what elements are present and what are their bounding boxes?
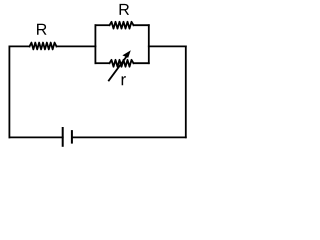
wire top branch left [95, 24, 109, 26]
node A: parallel box left vertical [94, 25, 96, 63]
rheostat arrow head [122, 50, 130, 58]
resistor R2 [110, 22, 134, 29]
wire bottom left [9, 136, 62, 138]
label R1 value R [37, 24, 47, 35]
wire R1 to node A [57, 45, 96, 47]
battery cell long plate [62, 127, 64, 147]
wire right vertical [185, 46, 187, 137]
wire bottom branch left [95, 62, 109, 64]
resistor R1 [30, 43, 57, 50]
label rheostat value r [122, 76, 126, 85]
node B: parallel box right vertical [148, 25, 150, 63]
wire top-left horizontal [9, 45, 29, 47]
rheostat r zigzag [110, 60, 134, 67]
wire top branch right [134, 24, 149, 26]
wire bottom branch right [134, 62, 149, 64]
label R2 value R [120, 4, 129, 15]
rheostat arrow shaft [108, 55, 127, 81]
wire bottom right [72, 136, 186, 138]
wire left vertical [8, 46, 10, 137]
wire node B to right [149, 45, 186, 47]
battery cell short plate [71, 130, 73, 144]
